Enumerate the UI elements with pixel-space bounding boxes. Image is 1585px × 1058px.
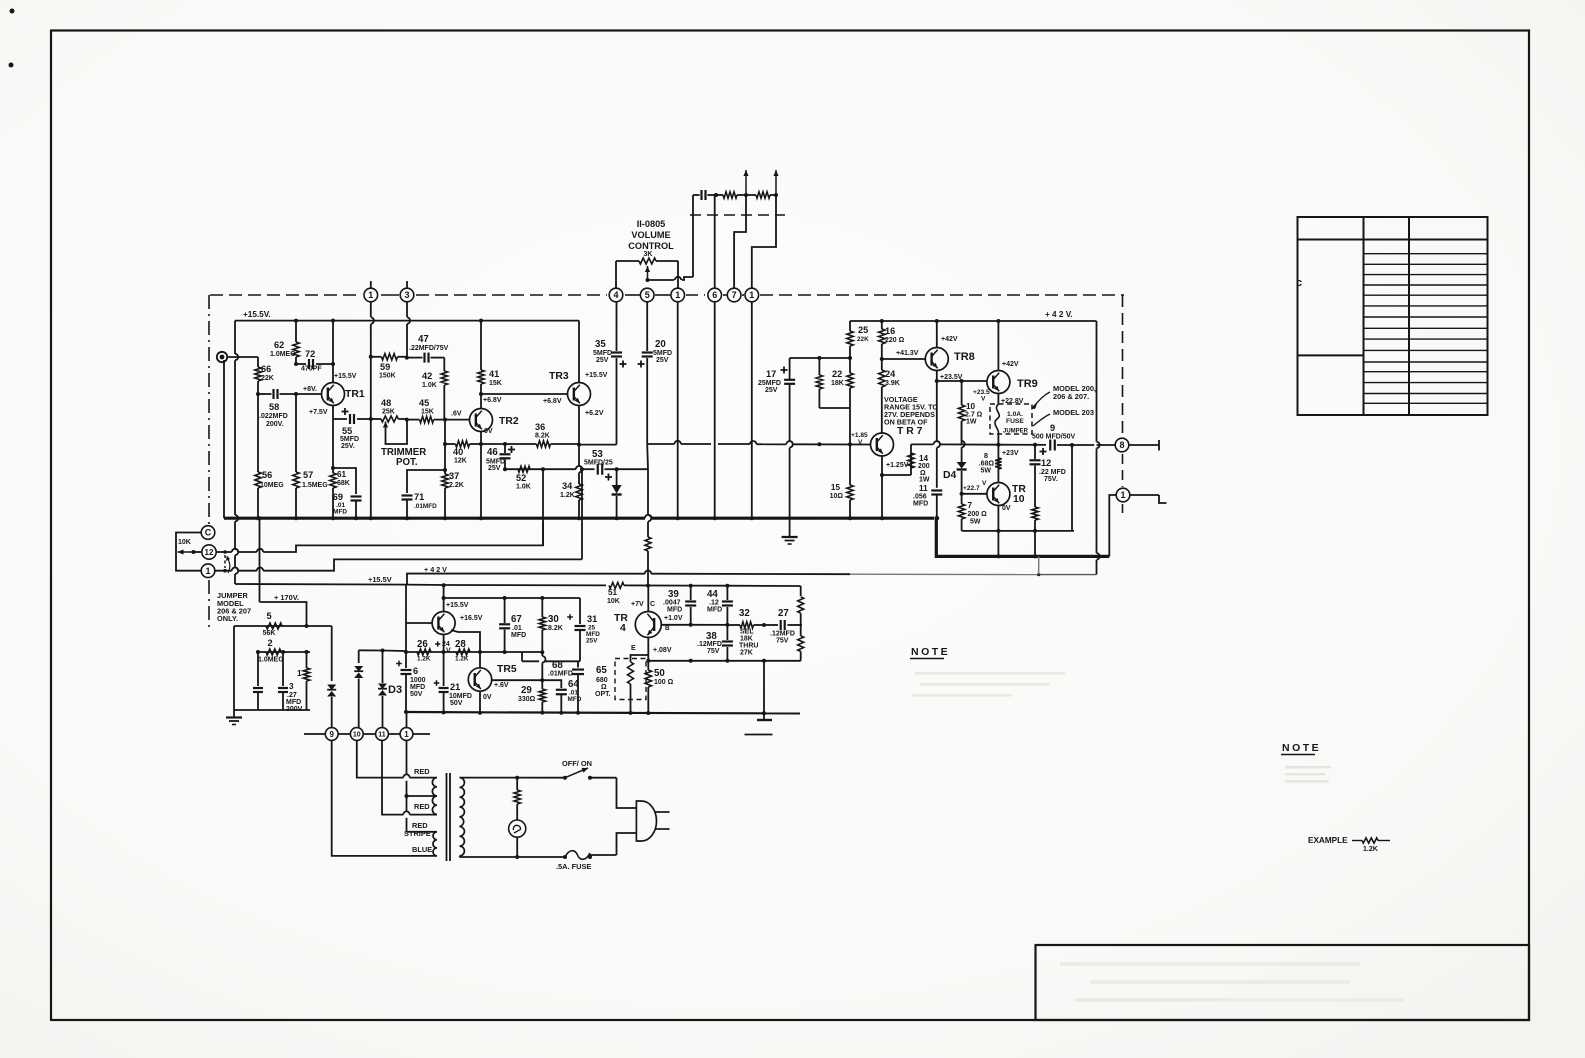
node bbox=[405, 356, 409, 360]
svg-text:53: 53 bbox=[592, 449, 603, 460]
wire connector 1b to ground bus bbox=[751, 302, 753, 518]
wire output line to connector 8 bbox=[1097, 444, 1116, 446]
svg-text:TR8: TR8 bbox=[954, 351, 975, 363]
rectifier diode (pin 10) bbox=[358, 650, 360, 663]
transistor TR5 bbox=[468, 668, 491, 691]
svg-text:44: 44 bbox=[707, 589, 718, 600]
resistor R40 12K bbox=[445, 443, 456, 445]
svg-text:V: V bbox=[981, 396, 986, 403]
svg-text:V: V bbox=[982, 480, 987, 487]
vertical feed at x=406 (L42 to lower block) bbox=[405, 585, 407, 652]
resistor R66 22K bbox=[257, 357, 259, 367]
svg-text:200V.: 200V. bbox=[266, 421, 284, 428]
svg-text:1W: 1W bbox=[966, 419, 977, 426]
resistor R61 68K bbox=[332, 468, 334, 473]
connector 5 bbox=[640, 288, 654, 302]
local rail y=598 bbox=[444, 597, 580, 599]
svg-text:8: 8 bbox=[1119, 440, 1124, 450]
svg-text:MFD: MFD bbox=[707, 607, 722, 614]
svg-text:+8V.: +8V. bbox=[303, 386, 317, 393]
node .6V bbox=[443, 418, 447, 422]
svg-text:+ 170V.: + 170V. bbox=[274, 593, 299, 602]
wire +170 node to rectifier bbox=[307, 625, 332, 627]
svg-text:1: 1 bbox=[297, 669, 302, 678]
svg-text:56K: 56K bbox=[263, 630, 276, 637]
connector 1 (top left) bbox=[364, 288, 378, 302]
svg-text:37: 37 bbox=[449, 471, 459, 481]
diode D3 (pin 11) bbox=[382, 651, 384, 684]
cap (volume network) bbox=[700, 190, 702, 200]
svg-text:17: 17 bbox=[766, 369, 776, 379]
TR10 emitter down bbox=[997, 506, 999, 531]
svg-text:40: 40 bbox=[453, 447, 463, 457]
TR6 base wire bbox=[406, 622, 432, 624]
svg-text:.01: .01 bbox=[512, 625, 522, 632]
svg-text:69: 69 bbox=[333, 492, 343, 502]
arrow up (to speaker line 1) bbox=[745, 170, 747, 195]
svg-text:21: 21 bbox=[450, 682, 460, 692]
RED STRIPE tap bbox=[407, 831, 438, 833]
svg-text:67: 67 bbox=[511, 614, 522, 625]
wire pot left to connector 4 bbox=[615, 261, 617, 288]
transistor TR7 bbox=[871, 433, 894, 456]
divider bottom row bbox=[234, 709, 310, 711]
svg-text:MFD: MFD bbox=[913, 501, 928, 508]
svg-text:0V: 0V bbox=[1002, 505, 1011, 512]
registration dots at left margin bbox=[10, 9, 15, 14]
svg-text:MFD: MFD bbox=[286, 699, 301, 706]
wire connector 1a to ground bus bbox=[677, 302, 679, 518]
svg-text:1.2K: 1.2K bbox=[417, 656, 431, 663]
wire ground drop bbox=[763, 661, 765, 713]
svg-text:+7.5V: +7.5V bbox=[309, 409, 328, 416]
+15.5V rail bbox=[235, 320, 579, 322]
stub above connector 3 bbox=[406, 281, 408, 288]
connector 1 (output) bbox=[1116, 488, 1130, 502]
svg-text:+6.2V: +6.2V bbox=[585, 410, 604, 417]
svg-text:.0047: .0047 bbox=[663, 600, 681, 607]
svg-text:41: 41 bbox=[489, 369, 499, 379]
resistor (volume network 2) bbox=[746, 194, 756, 196]
capacitor C27 .12MFD 75V bbox=[764, 624, 778, 626]
svg-text:1.0K: 1.0K bbox=[422, 382, 437, 389]
svg-text:THRU: THRU bbox=[739, 643, 758, 650]
svg-text:c: c bbox=[1296, 277, 1302, 289]
svg-text:1: 1 bbox=[404, 730, 409, 739]
transistor TR1 bbox=[332, 321, 334, 383]
capacitor C55 5MFD 25V electrolytic bbox=[333, 418, 347, 420]
speaker terminal R bbox=[1129, 444, 1159, 446]
resistor R52 1.0K bbox=[518, 466, 530, 472]
row 46/52/53 y=469 bbox=[505, 468, 543, 470]
line to C68 bbox=[522, 660, 539, 662]
row TR10 emitter bbox=[962, 530, 1074, 532]
resistor R37 2.2K bbox=[444, 470, 446, 474]
svg-text:ONLY.: ONLY. bbox=[217, 614, 238, 623]
svg-text:.12MFD: .12MFD bbox=[770, 631, 795, 638]
svg-text:61: 61 bbox=[337, 470, 347, 479]
TR7 base line from C20 corner bbox=[648, 443, 675, 445]
svg-text:6: 6 bbox=[413, 666, 418, 676]
dashed chassis line above bus bbox=[690, 214, 785, 216]
wire C17 line down to chassis gnd bbox=[789, 518, 791, 537]
svg-text:1: 1 bbox=[1120, 490, 1125, 500]
node bbox=[744, 193, 748, 197]
resistor R34 1.2K bbox=[578, 483, 580, 484]
svg-text:6: 6 bbox=[712, 290, 717, 300]
svg-text:20: 20 bbox=[655, 339, 666, 350]
bottom rail bbox=[406, 711, 631, 714]
svg-text:V: V bbox=[858, 439, 863, 446]
node bbox=[256, 392, 260, 396]
center tap wire pin1 bbox=[406, 740, 408, 774]
svg-text:8.2K: 8.2K bbox=[548, 625, 563, 632]
svg-text:28: 28 bbox=[455, 639, 466, 650]
wire pot right to connector 1 bbox=[677, 261, 679, 288]
svg-text:0V: 0V bbox=[483, 694, 492, 701]
cap C17 top wire bbox=[790, 357, 850, 359]
svg-text:.056: .056 bbox=[913, 494, 927, 501]
+42V corner into long wire bbox=[1039, 574, 1097, 576]
svg-text:200: 200 bbox=[918, 463, 930, 470]
svg-text:BLUE: BLUE bbox=[412, 845, 432, 854]
svg-text:.22MFD/75V: .22MFD/75V bbox=[409, 345, 449, 352]
svg-text:25V: 25V bbox=[586, 638, 598, 645]
svg-text:32: 32 bbox=[739, 608, 750, 619]
connector 7 bbox=[727, 288, 741, 302]
svg-text:25V.: 25V. bbox=[341, 443, 355, 450]
wire connector 7 up to arrow line 1 bbox=[734, 195, 746, 288]
ground symbol bbox=[226, 716, 242, 718]
faint note body text bbox=[1285, 766, 1331, 768]
resistor R26 1.2K bbox=[417, 649, 431, 655]
svg-text:C: C bbox=[205, 528, 212, 538]
TR8 emitter down bbox=[936, 371, 938, 381]
svg-text:31: 31 bbox=[587, 614, 597, 624]
connector C bbox=[201, 526, 215, 540]
svg-text:2: 2 bbox=[267, 638, 272, 648]
capacitor C17 25MFD 25V electrolytic bbox=[789, 358, 791, 380]
svg-text:+.08V: +.08V bbox=[653, 647, 672, 654]
external 10K volume pot box bbox=[176, 533, 201, 571]
svg-text:200 Ω: 200 Ω bbox=[968, 511, 988, 518]
svg-text:+1.85: +1.85 bbox=[851, 432, 868, 439]
svg-text:+ 4 2 V.: + 4 2 V. bbox=[1045, 310, 1073, 319]
capacitor C21 10MFD 50V bbox=[443, 652, 445, 686]
svg-text:+15.5V: +15.5V bbox=[334, 373, 357, 380]
resistor R15 10Ω bbox=[849, 444, 851, 485]
svg-text:POT.: POT. bbox=[396, 457, 418, 468]
svg-text:10MEG: 10MEG bbox=[260, 482, 284, 489]
svg-text:FUSE: FUSE bbox=[1006, 418, 1024, 425]
svg-text:JUMPER: JUMPER bbox=[1003, 429, 1029, 435]
svg-text:500 MFD/50V: 500 MFD/50V bbox=[1032, 434, 1076, 441]
svg-text:+15.5V: +15.5V bbox=[368, 575, 392, 584]
svg-text:45: 45 bbox=[419, 398, 429, 408]
svg-text:STRIPE: STRIPE bbox=[404, 829, 431, 838]
svg-text:RED: RED bbox=[414, 767, 430, 776]
capacitor C71 .01MFD bbox=[402, 494, 413, 496]
svg-text:10K: 10K bbox=[607, 598, 620, 605]
capacitor C44 .12 MFD bbox=[726, 586, 728, 600]
svg-text:+22.7: +22.7 bbox=[963, 485, 980, 492]
svg-text:36: 36 bbox=[535, 422, 545, 432]
mains bottom wire bbox=[459, 856, 462, 857]
svg-text:.01MFD: .01MFD bbox=[414, 503, 437, 510]
connector 12 bbox=[202, 545, 216, 559]
dashed box R65 680Ω OPT bbox=[615, 659, 646, 700]
svg-text:55: 55 bbox=[342, 426, 352, 436]
connector 4 bbox=[609, 288, 623, 302]
svg-text:.12: .12 bbox=[709, 600, 719, 607]
svg-text:48: 48 bbox=[381, 398, 391, 408]
pot wiper arrow to connector 12 bbox=[178, 551, 194, 553]
svg-text:4: 4 bbox=[613, 290, 618, 300]
TR3 collector to rail corner bbox=[578, 321, 580, 383]
svg-text:+6.8V: +6.8V bbox=[483, 397, 502, 404]
svg-text:RED: RED bbox=[414, 802, 430, 811]
transformer core bbox=[446, 773, 448, 861]
svg-text:3K: 3K bbox=[644, 251, 653, 258]
svg-text:CONTROL: CONTROL bbox=[628, 241, 674, 251]
plug wires bbox=[617, 778, 637, 808]
svg-text:+23.5V: +23.5V bbox=[940, 374, 963, 381]
svg-text:14: 14 bbox=[919, 454, 929, 463]
svg-text:25MFD: 25MFD bbox=[758, 380, 781, 387]
svg-text:200V: 200V bbox=[286, 706, 303, 713]
svg-text:75V.: 75V. bbox=[1044, 476, 1058, 483]
svg-text:D4: D4 bbox=[943, 470, 957, 481]
svg-text:18K: 18K bbox=[831, 380, 844, 387]
svg-text:.01MFD: .01MFD bbox=[548, 671, 573, 678]
parallel resistor with R22 bbox=[819, 407, 850, 409]
resistor R14 200Ω 1W bbox=[882, 474, 911, 476]
svg-text:.5A. FUSE: .5A. FUSE bbox=[556, 862, 591, 871]
svg-text:11: 11 bbox=[378, 732, 386, 739]
TR9 emitter below fuse box bbox=[997, 434, 999, 445]
resistor R50 100Ω bbox=[647, 661, 649, 670]
svg-text:+23V: +23V bbox=[1002, 450, 1019, 457]
capacitor C12 .22MFD 75V bbox=[1034, 445, 1036, 459]
capacitor C69 .01MFD bbox=[351, 495, 362, 497]
svg-text:1.0MEG: 1.0MEG bbox=[258, 657, 284, 664]
jumper dashed link bbox=[224, 555, 226, 568]
svg-text:50: 50 bbox=[654, 668, 665, 679]
faint title block text bbox=[1060, 962, 1360, 966]
svg-text:1W: 1W bbox=[919, 477, 930, 484]
node bbox=[541, 467, 545, 471]
svg-text:10: 10 bbox=[966, 402, 976, 411]
svg-text:71: 71 bbox=[414, 492, 424, 502]
svg-text:25V: 25V bbox=[596, 357, 609, 364]
transistor TR2 bbox=[470, 409, 493, 432]
transistor TR9 bbox=[987, 371, 1010, 394]
svg-text:VOLUME: VOLUME bbox=[631, 230, 670, 240]
+42V rail bbox=[850, 320, 1097, 322]
wire pin12 line junction down bbox=[542, 469, 544, 545]
wire connector 6 to ground bus bbox=[714, 302, 716, 518]
divider top row bbox=[234, 625, 307, 627]
svg-text:75V: 75V bbox=[707, 648, 720, 655]
TR8 base wire bbox=[882, 358, 926, 360]
svg-text:1: 1 bbox=[368, 290, 373, 300]
svg-text:30: 30 bbox=[548, 614, 559, 625]
transformer secondary winding (right) bbox=[460, 778, 465, 856]
svg-text:+1.0V: +1.0V bbox=[664, 615, 683, 622]
TR5 collector wire bbox=[492, 679, 542, 681]
resistor R5 56K bbox=[266, 623, 282, 629]
wire jack down to bus bbox=[223, 360, 225, 518]
BLUE wire pin9 to transformer bbox=[332, 740, 437, 856]
svg-text:MFD: MFD bbox=[410, 684, 425, 691]
wire TR2 collector node to TR3 base bbox=[481, 393, 567, 395]
resistor R65 bbox=[631, 655, 649, 662]
wire TR8 emitter to TR9 base bbox=[937, 380, 987, 382]
capacitor C6 1000MFD 50V bbox=[405, 652, 407, 668]
node bbox=[615, 467, 619, 471]
RED wire pin10 to transformer bbox=[357, 740, 404, 777]
svg-text:EXAMPLE: EXAMPLE bbox=[1308, 836, 1348, 845]
svg-text:51: 51 bbox=[608, 588, 618, 597]
resistor R22 18K bbox=[849, 358, 851, 373]
TR7 emitter node bbox=[881, 456, 883, 475]
svg-text:1.2K: 1.2K bbox=[1363, 846, 1378, 853]
svg-text:.22 MFD: .22 MFD bbox=[1039, 469, 1066, 476]
capacitor C68 .01MFD bbox=[577, 661, 579, 667]
TR4 collector bbox=[647, 586, 649, 612]
svg-text:1: 1 bbox=[205, 566, 210, 576]
capacitor C67 .01MFD bbox=[504, 598, 506, 623]
svg-text:25V: 25V bbox=[656, 357, 669, 364]
transistor TR10 bbox=[987, 483, 1010, 506]
svg-text:12: 12 bbox=[1041, 458, 1051, 468]
svg-text:206 & 207.: 206 & 207. bbox=[1053, 392, 1089, 401]
speaker terminal L bbox=[1130, 494, 1159, 496]
junction C20 to TR7 base line bbox=[646, 444, 649, 469]
svg-text:OPT.: OPT. bbox=[595, 691, 611, 698]
svg-text:11: 11 bbox=[919, 484, 928, 493]
TR7 collector up to R24 bbox=[881, 431, 883, 434]
TR5 emitter bbox=[479, 691, 481, 713]
svg-text:10K: 10K bbox=[178, 539, 191, 546]
svg-text:.12MFD: .12MFD bbox=[697, 641, 722, 648]
svg-text:1.0MEG: 1.0MEG bbox=[270, 351, 296, 358]
pilot lamp bbox=[509, 820, 526, 837]
svg-text:42: 42 bbox=[422, 371, 432, 381]
connector 1 (left) bbox=[201, 564, 215, 578]
svg-text:27: 27 bbox=[778, 608, 789, 619]
svg-text:10: 10 bbox=[353, 732, 361, 739]
svg-text:+41.3V: +41.3V bbox=[896, 350, 919, 357]
svg-text:330Ω: 330Ω bbox=[518, 696, 536, 703]
+42V vertical at right bbox=[1096, 321, 1098, 442]
wire bus-dropdown to pin1 line and +170V branch bbox=[259, 518, 261, 602]
fuse .5A bbox=[565, 851, 590, 860]
capacitor C31 25MFD 25V bbox=[579, 598, 581, 624]
TR7 emitter to bus bbox=[881, 475, 883, 518]
bus corner down to lower thick bus bbox=[936, 518, 1109, 556]
bottom row of TR4 block bbox=[648, 660, 800, 662]
connector 11 bbox=[376, 728, 389, 741]
capacitor C39 .0047 MFD bbox=[690, 586, 692, 600]
feedback junction down through bus bbox=[581, 469, 583, 559]
wire connector 1-left line (feedback/+42 line) bbox=[215, 570, 232, 572]
output node line y=445 bbox=[996, 443, 1000, 447]
node bbox=[294, 392, 298, 396]
resistor R28 1.2K bbox=[456, 649, 470, 655]
capacitor C58 .022MFD 200V bbox=[258, 393, 272, 395]
capacitor C53 5MFD/25 bbox=[597, 464, 599, 475]
resistor below C12 bbox=[1034, 506, 1036, 508]
TR9 emitter bbox=[997, 394, 999, 404]
resistor R30 8.2K bbox=[541, 598, 543, 617]
svg-text:1.2K: 1.2K bbox=[560, 492, 575, 499]
svg-text:E: E bbox=[631, 645, 636, 652]
svg-text:MFD: MFD bbox=[667, 607, 682, 614]
svg-text:8: 8 bbox=[984, 451, 988, 460]
resistor R10 2.7Ω 1W bbox=[961, 381, 963, 405]
svg-text:3.9K: 3.9K bbox=[885, 380, 900, 387]
dash-dot left boundary bbox=[208, 295, 210, 524]
wire output to TR10 emitter row bbox=[1071, 445, 1073, 531]
branch to C69 bbox=[333, 468, 356, 494]
R22 node continues to TR7 base bbox=[849, 408, 851, 444]
input jack bbox=[217, 352, 227, 362]
resistor R57 1.5MEG bbox=[295, 394, 297, 472]
svg-text:+16.5V: +16.5V bbox=[460, 615, 483, 622]
resistor R62 1.0MEG bbox=[295, 321, 297, 342]
TR6 collector from rails bbox=[443, 585, 445, 611]
svg-text:3: 3 bbox=[289, 682, 294, 691]
svg-text:100 Ω: 100 Ω bbox=[654, 679, 674, 686]
svg-text:22: 22 bbox=[832, 369, 842, 379]
svg-text:26: 26 bbox=[417, 639, 428, 650]
chassis ground (lower right) bbox=[763, 713, 765, 719]
svg-text:Ω: Ω bbox=[601, 684, 607, 691]
svg-text:TR9: TR9 bbox=[1017, 378, 1038, 390]
svg-text:65: 65 bbox=[596, 665, 607, 676]
svg-text:TR5: TR5 bbox=[497, 664, 517, 675]
node bbox=[331, 362, 335, 366]
svg-text:1: 1 bbox=[675, 290, 680, 300]
svg-text:+15.5V: +15.5V bbox=[446, 602, 469, 609]
title block bottom right bbox=[1036, 945, 1530, 1020]
svg-text:5MFD: 5MFD bbox=[340, 436, 359, 443]
resistor R59 150K bbox=[371, 356, 382, 358]
svg-text:52: 52 bbox=[516, 473, 526, 483]
mains top wire bbox=[460, 777, 566, 779]
mains plug bbox=[636, 801, 656, 841]
svg-text:29: 29 bbox=[521, 685, 532, 696]
transformer primary winding (left) bbox=[432, 778, 437, 815]
svg-text:5: 5 bbox=[645, 290, 650, 300]
capacitor C47 .22MFD/75V bbox=[407, 357, 423, 359]
svg-text:15: 15 bbox=[831, 483, 841, 492]
node bbox=[405, 418, 409, 422]
fuse jumper curve bbox=[995, 404, 999, 434]
svg-text:+15.5V.: +15.5V. bbox=[243, 310, 271, 319]
svg-text:.68Ω: .68Ω bbox=[979, 461, 995, 468]
svg-text:16: 16 bbox=[885, 326, 895, 336]
svg-text:34: 34 bbox=[562, 481, 573, 491]
resistor R56 10MEG bbox=[257, 394, 259, 472]
svg-text:+42V: +42V bbox=[1002, 361, 1019, 368]
svg-text:25K: 25K bbox=[382, 409, 395, 416]
left leg to ground bbox=[233, 626, 235, 710]
svg-text:59: 59 bbox=[380, 362, 390, 372]
capacitor C9 500MFD/50V bbox=[1049, 440, 1051, 451]
svg-text:22K: 22K bbox=[857, 336, 869, 343]
